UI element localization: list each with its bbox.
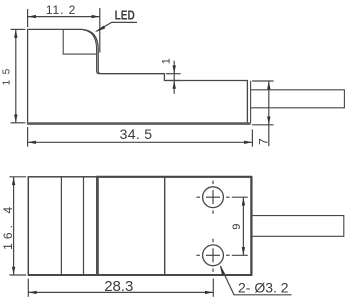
svg-text:1: 1 [160,58,172,64]
leader 2-Ø3.2 with arrow [221,266,292,295]
dimension 15 arrows [14,30,17,38]
svg-text:2- Ø3. 2: 2- Ø3. 2 [238,280,289,296]
dimension 9 arrows [242,198,245,206]
dimension 34.5 line [28,141,253,143]
dimension 7 arrows [267,81,270,89]
dimension 1 extension lines [166,73,181,75]
dimension 34.5 arrows [28,141,36,144]
dimension 28.3 extension lines [27,279,29,297]
dimension 9 extension lines [232,196,248,198]
dimension 16.4 line [13,177,15,275]
dimension 1 arrows (outside, pointing in) [173,65,176,73]
cable (side view) [251,90,345,108]
cable (bottom view) [253,216,344,237]
svg-text:34. 5: 34. 5 [120,126,153,142]
dimension 7 line [268,81,270,146]
thick bottom edge [28,274,252,276]
svg-text:28.3: 28.3 [104,278,133,295]
internal parting line 2 [83,177,85,275]
dimension 1 line [173,61,175,94]
dimension 11.2 line [28,16,100,18]
internal thick band line [96,177,99,275]
body right end face double line (side view) [250,81,252,123]
svg-text:15: 15 [1,63,12,85]
LED window rectangle (side view) [63,30,96,54]
internal parting line 3 [164,177,166,275]
mounting hole lower [203,245,224,266]
svg-text:LED: LED [115,9,135,23]
dimension 9 line [242,197,244,255]
sensor body outline (top/side view) [28,29,248,122]
lower hole crosshair [206,254,220,256]
LED lens inner curve (double line) [83,30,99,74]
svg-text:9: 9 [231,224,243,230]
thick right edge [250,176,252,275]
dimension 15 line [15,29,17,122]
svg-text:11. 2: 11. 2 [46,3,76,17]
svg-text:16. 4: 16. 4 [1,203,15,250]
thick top edge segment [96,176,252,178]
mounting hole upper [203,187,224,208]
body bottom edge (thick, side view) [27,122,251,125]
dimension 28.3 line [28,291,213,293]
sensor body rectangle (bottom view) [28,177,251,275]
internal parting line 1 (bottom view) [60,177,62,275]
LED leader line with arrow [97,22,138,31]
dimension 16.4 extension lines [9,176,26,178]
dimension 11.2 extension lines [27,9,29,27]
dimension 34.5 extension lines [27,127,29,147]
upper hole crosshair [206,196,220,198]
dimension 15 extension lines [11,28,26,30]
dimension 16.4 arrows [12,177,15,185]
svg-text:7: 7 [256,138,270,145]
dimension 28.3 arrows [29,291,37,294]
dimension 11.2 arrows [28,15,36,18]
dimension 7 extension lines [252,80,274,82]
